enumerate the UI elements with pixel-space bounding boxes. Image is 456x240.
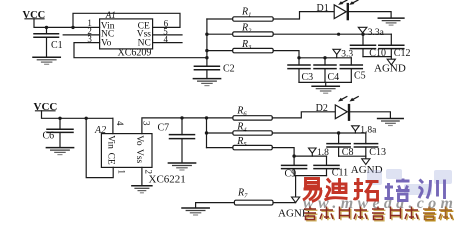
diode D2 designator [316, 103, 328, 114]
capacitor C1 [34, 27, 63, 57]
node junction C4 tap [323, 56, 326, 59]
svg-text:C13: C13 [369, 147, 386, 158]
wire R1 to D1 [273, 12, 334, 19]
wire C3-C4-C5 join [299, 82, 351, 86]
capacitor C13 [354, 133, 386, 158]
svg-text:R4: R4 [236, 121, 247, 133]
resistor R1 [207, 7, 273, 22]
capacitor C5 [340, 58, 365, 83]
svg-text:1.8a: 1.8a [360, 126, 377, 136]
svg-text:C4: C4 [328, 72, 340, 83]
wire pin5 stub [153, 34, 182, 36]
svg-text:R7: R7 [237, 187, 248, 199]
node V1.8 label [309, 148, 330, 158]
ground (under D1) [378, 18, 404, 25]
pin 2 label (rotated) [143, 170, 153, 175]
ground AGND (middle) [351, 156, 383, 176]
ground (under C6) [46, 148, 73, 155]
pin 4 label (rotated) [115, 121, 125, 126]
capacitor C6 [43, 118, 74, 147]
node V3.3a label [358, 27, 384, 38]
pin 2 label [87, 26, 92, 36]
resistor R6 [233, 106, 272, 121]
node junction C9 tap [292, 154, 295, 157]
node junction rail dot [337, 33, 340, 36]
svg-text:R2: R2 [241, 22, 252, 34]
pin 4 label [164, 35, 169, 45]
node junction bus2 tap [205, 116, 208, 119]
resistor R3 [207, 39, 273, 53]
wire net V3.3a rail [273, 33, 391, 35]
capacitor C2 [194, 63, 234, 78]
svg-text:Vin: Vin [105, 135, 115, 149]
pin 1 label [87, 18, 92, 28]
svg-text:C9: C9 [285, 169, 297, 180]
ground (under C2) [193, 79, 220, 86]
op-amp U/IC A1 designator [105, 10, 116, 20]
wire input bus (bottom) [206, 118, 208, 148]
node bus-R3 junction [205, 49, 208, 52]
ground (under D2) [378, 119, 404, 126]
svg-text:CE: CE [105, 153, 115, 165]
watermark slogan row [305, 208, 453, 221]
svg-text:C7: C7 [158, 122, 170, 133]
resistor R7 [234, 187, 295, 205]
capacitor C11 [314, 156, 348, 178]
node junction C1 tap [45, 26, 48, 29]
ground (under A2 pin2) [132, 186, 152, 193]
capacitor C9 [282, 156, 307, 180]
wire D2 cathode to ground [350, 112, 390, 119]
svg-text:AGND: AGND [374, 63, 406, 75]
power VCC (bottom) [34, 101, 58, 113]
svg-text:2: 2 [143, 170, 153, 175]
watermark char 3 [354, 178, 379, 200]
node junction feedback tap [71, 26, 74, 29]
diode D1 (LED) [334, 0, 358, 20]
resistor R5 [207, 136, 273, 150]
svg-text:XC6221: XC6221 [149, 174, 186, 186]
svg-text:C12: C12 [394, 48, 411, 59]
wire pin3 Vo output run [142, 118, 233, 134]
svg-text:1.8: 1.8 [317, 148, 329, 158]
capacitor C10 [351, 34, 386, 59]
wire pin2 Vss to ground [141, 167, 143, 185]
resistor R2 [207, 22, 273, 36]
capacitor C12 [379, 34, 411, 59]
ground AGND (top) [374, 57, 406, 75]
watermark char 1 [303, 179, 322, 202]
svg-text:1: 1 [117, 170, 127, 175]
ground (left of R7) [182, 208, 209, 215]
node V3.3 label [333, 49, 354, 59]
svg-text:C3: C3 [302, 72, 314, 83]
ground (under C3 C4 C5) [312, 86, 339, 93]
svg-text:R3: R3 [241, 39, 252, 51]
svg-text:C1: C1 [51, 40, 63, 51]
wire R3 to V3.3 rail [273, 51, 351, 58]
wire CE-Vin feedback loop [73, 13, 180, 27]
wire net V1.8a rail [272, 132, 366, 134]
diode D1 designator [317, 3, 329, 14]
pin 5 label [163, 26, 168, 36]
svg-text:C2: C2 [223, 63, 235, 74]
svg-text:Vo: Vo [101, 39, 112, 49]
diode D2 (LED) [335, 97, 358, 121]
wire C8-C13 join [339, 155, 366, 157]
node junction C10 tap [361, 33, 364, 36]
node bus-Vo junction [205, 56, 208, 59]
capacitor C4 [314, 58, 339, 83]
svg-text:R1: R1 [241, 7, 251, 19]
svg-text:A2: A2 [94, 125, 106, 136]
node junction CE loop tap [85, 117, 88, 120]
watermark char 4 [385, 179, 410, 201]
watermark char 5 [419, 180, 445, 200]
svg-text:C11: C11 [332, 167, 348, 178]
op-amp U/IC A2 designator [94, 125, 106, 136]
pin 3 label [87, 34, 92, 44]
node bus-R2 junction [205, 33, 208, 36]
wire C9-C11 join [294, 175, 326, 177]
op-amp U/IC A1 XC6209 body [100, 19, 153, 49]
svg-text:Vo: Vo [134, 135, 144, 146]
power VCC (top) [23, 10, 46, 21]
wire Vo output run [74, 43, 207, 58]
svg-text:3.3a: 3.3a [368, 28, 385, 38]
svg-text:R6: R6 [236, 106, 247, 118]
wire CE-Vin feedback loop (bottom) [86, 118, 113, 177]
wire R6 to D2 [272, 112, 335, 118]
node junction C3 tap [297, 56, 300, 59]
svg-text:C6: C6 [43, 131, 55, 142]
wire C10-C12 join [363, 56, 391, 58]
wire R5 to V1.8 rail [272, 148, 326, 157]
wire VCC drop [34, 19, 100, 28]
wire R7 to ground [196, 203, 235, 208]
svg-text:C10: C10 [369, 48, 386, 59]
svg-text:D2: D2 [316, 103, 328, 114]
pin 6 label [164, 18, 169, 28]
wire pin4 stub [153, 42, 182, 44]
node junction C8 tap [337, 131, 340, 134]
pin 3 label (rotated) [142, 121, 152, 126]
wire D1 cathode to ground [349, 12, 391, 18]
svg-text:D1: D1 [317, 3, 329, 14]
value label XC6209 [118, 48, 152, 59]
svg-text:XC6209: XC6209 [118, 48, 152, 59]
watermark char 2 [325, 178, 348, 200]
svg-text:4: 4 [115, 121, 125, 126]
wire VCC drop (bottom) [42, 111, 113, 119]
op-amp U/IC A2 XC6221 body [101, 134, 152, 168]
ground (under C1) [33, 57, 60, 64]
resistor R4 [207, 121, 273, 135]
wire pin4 Vin drop [112, 118, 114, 133]
wire pin2 NC stub [63, 34, 99, 36]
ground AGND (bottom) [278, 176, 310, 220]
capacitor C7 [158, 118, 195, 163]
node V1.8a label [352, 126, 377, 136]
capacitor C3 [288, 58, 313, 83]
wire input bus (top) [206, 19, 208, 66]
capacitor C8 [327, 133, 353, 158]
watermark blue haze blocks [367, 169, 452, 195]
ground (under C7) [168, 163, 195, 170]
node junction C6 tap [58, 117, 61, 120]
svg-text:3: 3 [142, 121, 152, 126]
node bus2-R4 junction [205, 131, 208, 134]
node junction C7 tap [180, 116, 183, 119]
svg-text:Vss: Vss [134, 149, 144, 164]
svg-text:R5: R5 [236, 136, 247, 148]
svg-text:C5: C5 [354, 71, 366, 82]
value label XC6221 [149, 174, 186, 186]
pin 1 label (rotated) [117, 170, 127, 175]
